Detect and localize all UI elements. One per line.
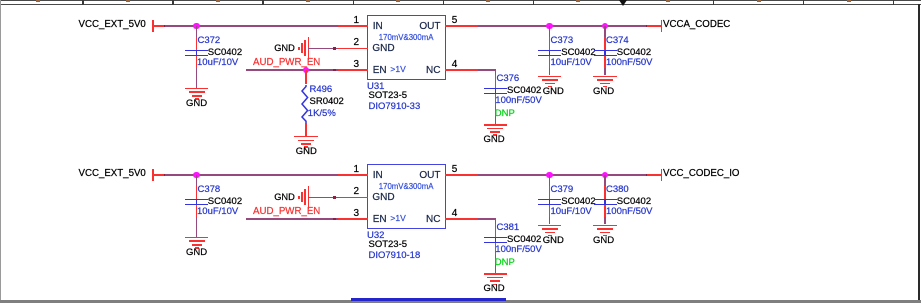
label DIO7910-18 (369, 251, 421, 262)
pin 2 stub (338, 197, 368, 199)
wire junction down to C373 (549, 26, 551, 37)
label C378 (198, 185, 221, 196)
capacitor C380 (594, 199, 617, 201)
label SC0402 (617, 48, 651, 59)
pin name OUT (419, 21, 440, 33)
voltage regulator U31 DIO7910 (367, 15, 447, 80)
wire junction down to C378 (196, 175, 198, 186)
wire pin 4 to C376 (478, 69, 481, 72)
right border line (918, 4, 920, 303)
ground below C381 (484, 273, 508, 275)
node junction at C372 tap (193, 23, 200, 30)
border frame top line 2 (0, 4, 921, 5)
pin number 1 (353, 15, 359, 27)
label GND (493, 87, 613, 98)
wire C378 to ground (196, 217, 198, 237)
wire VCC_EXT_5V0 to pin 1 (152, 25, 165, 27)
label SC0402 (208, 197, 242, 208)
pin number 1 (353, 164, 359, 176)
wire C373 to ground (549, 68, 551, 76)
label C380 (606, 185, 629, 196)
capacitor C379 (538, 199, 561, 201)
ground below C376 (484, 124, 508, 126)
power symbol GND (pin 2) (274, 192, 295, 203)
label C374 (606, 36, 629, 47)
label SC0402 (561, 197, 595, 208)
label DNP (495, 258, 515, 269)
wire C380 to ground (604, 217, 606, 225)
label DNP (495, 109, 515, 120)
pin name EN (373, 214, 387, 226)
blue sheet line at bottom (351, 298, 506, 301)
ground below C373 (538, 76, 562, 78)
pin 5 stub (445, 174, 479, 176)
label C372 (198, 36, 221, 47)
label GND (544, 236, 664, 247)
port VCC_EXT_5V0 (input net) (79, 19, 146, 30)
wire C379 to ground (549, 217, 551, 225)
wire junction down to C379 (549, 175, 551, 186)
node junction at R496 tap (303, 67, 310, 74)
capacitor C373 (538, 50, 561, 52)
label DIO7910-33 (369, 102, 421, 113)
label SC0402 (617, 197, 651, 208)
pin name EN (373, 65, 387, 77)
pin 2 stub (338, 48, 368, 50)
wire pin 5 to VCCA_CODEC (478, 25, 481, 28)
ground below C378 (185, 237, 209, 239)
node junction at C379 tap (546, 172, 553, 179)
pin number 3 (353, 208, 359, 220)
pin name NC (426, 65, 440, 77)
pin number 4 (452, 208, 458, 220)
capacitor C376 (484, 88, 507, 90)
capacitor C374 (594, 50, 617, 52)
label U31 (367, 82, 384, 93)
label C381 (497, 223, 520, 234)
label SC0402 (507, 235, 541, 246)
label >1V (390, 214, 405, 224)
ground below C380 (593, 225, 617, 227)
wire junction down to C374 (604, 26, 606, 37)
bottom border line (0, 300, 921, 303)
wire C372 to ground (196, 68, 198, 88)
label SC0402 (561, 48, 595, 59)
pin name GND (372, 192, 394, 204)
wire AUD_PWR_EN to pin 3 (246, 69, 338, 71)
ground below C379 (538, 225, 562, 227)
pin name IN (373, 170, 383, 182)
value label 100nF/50V (606, 58, 652, 69)
left border line (0, 0, 1, 303)
wire junction down to C380 (604, 175, 606, 186)
ground below C372 (185, 88, 209, 90)
label U32 (367, 231, 384, 242)
wire C376 to ground (495, 106, 497, 125)
pin 4 stub (445, 69, 479, 71)
wire C374 to ground (604, 68, 606, 76)
label GND (544, 87, 664, 98)
voltage regulator U32 DIO7910 (367, 164, 447, 229)
pin number 5 (452, 15, 458, 27)
resistor R496 (305, 70, 307, 85)
value label 10uF/10V (197, 58, 238, 69)
label GND (434, 135, 554, 146)
value label 100nF/50V (606, 207, 652, 218)
node junction at C378 tap (193, 172, 200, 179)
ground below C374 (593, 76, 617, 78)
label SC0402 (507, 86, 541, 97)
label SR0402 (310, 97, 344, 108)
pin number 5 (452, 164, 458, 176)
pin number 4 (452, 59, 458, 71)
power symbol GND (pin 2) (274, 43, 295, 54)
label GND (434, 284, 554, 295)
pin number 2 (353, 37, 359, 49)
label GND (246, 147, 366, 158)
pin number 2 (353, 186, 359, 198)
value label 10uF/10V (551, 207, 592, 218)
pin name GND (372, 43, 394, 55)
capacitor C372 (185, 50, 208, 52)
net label AUD_PWR_EN (253, 57, 320, 68)
pin 5 stub (445, 25, 479, 27)
value label 1K/5% (308, 109, 336, 120)
label GND (137, 99, 257, 110)
label >1V (390, 65, 405, 75)
pin 3 stub (338, 218, 368, 220)
pin name OUT (419, 170, 440, 182)
wire junction down to C372 (196, 26, 198, 37)
wire pin 5 to VCC_CODEC_IO (478, 174, 481, 177)
pin 4 stub (445, 218, 479, 220)
pin number 3 (353, 59, 359, 71)
net label AUD_PWR_EN (253, 206, 320, 217)
pin 1 stub (338, 174, 368, 176)
wire C381 to ground (495, 255, 497, 274)
port VCC_EXT_5V0 (input net) (79, 168, 146, 179)
pin 3 stub (338, 69, 368, 71)
node junction at C373 tap (546, 23, 553, 30)
ground below R496 (294, 136, 318, 138)
label GND (493, 236, 613, 247)
port VCC_CODEC_IO (661, 169, 663, 181)
node junction at C374 tap (602, 23, 609, 30)
label SC0402 (208, 48, 242, 59)
capacitor C378 (185, 199, 208, 201)
label C376 (497, 74, 520, 85)
label SOT23-5 (369, 240, 408, 251)
label 170mV&300mA (379, 34, 434, 43)
wire VCC_EXT_5V0 to pin 1 (152, 174, 165, 176)
pin name NC (426, 214, 440, 226)
value label 100nF/50V (495, 245, 541, 256)
wire GND symbol to pin 2 (308, 197, 338, 199)
label GND (137, 248, 257, 259)
pin name IN (373, 21, 383, 33)
wire AUD_PWR_EN to pin 3 (246, 218, 338, 220)
node junction at C380 tap (602, 172, 609, 179)
value label 10uF/10V (551, 58, 592, 69)
port VCCA_CODEC (661, 20, 663, 32)
label 170mV&300mA (379, 183, 434, 192)
border frame top line 1 (0, 0, 921, 1)
capacitor C381 (484, 237, 507, 239)
off-sheet arrow on top border (619, 0, 627, 6)
wire GND symbol to pin 2 (308, 48, 338, 50)
label SOT23-5 (369, 91, 408, 102)
value label 10uF/10V (197, 207, 238, 218)
label R496 (310, 85, 333, 96)
wire pin 4 to C381 (478, 218, 481, 221)
pin 1 stub (338, 25, 368, 27)
value label 100nF/50V (495, 96, 541, 107)
label C379 (551, 185, 574, 196)
label C373 (551, 36, 574, 47)
